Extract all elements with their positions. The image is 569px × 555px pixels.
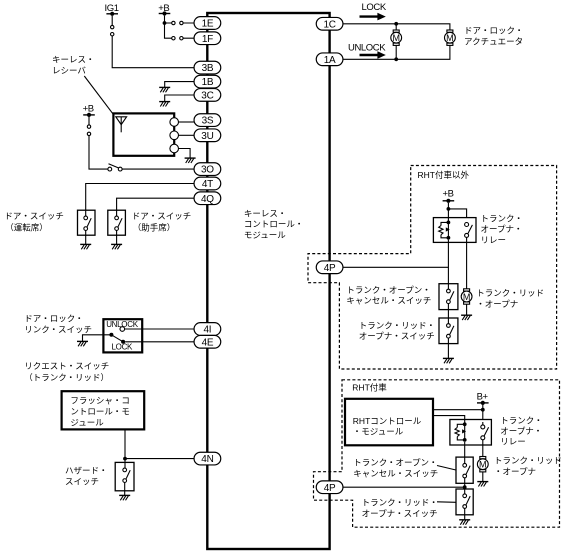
pin 4E — [194, 335, 221, 348]
svg-text:・オープナ: ・オープナ — [476, 299, 518, 309]
ground (receiver) — [185, 158, 196, 163]
svg-text:オープナ・スイッチ: オープナ・スイッチ — [359, 331, 435, 341]
motor M3 (trunk lid opener) — [461, 289, 472, 304]
pin 4N — [194, 452, 221, 465]
svg-text:RHTコントロール: RHTコントロール — [353, 416, 422, 426]
svg-text:ドア・スイッチ: ドア・スイッチ — [4, 211, 64, 221]
svg-text:キーレス・: キーレス・ — [52, 55, 95, 65]
svg-text:4I: 4I — [204, 325, 212, 336]
in-line connector on 1E wire — [172, 21, 175, 24]
contact LOCK — [121, 340, 125, 344]
wire +B to 1E — [165, 16, 195, 23]
svg-text:（運転席）: （運転席） — [5, 222, 48, 232]
power terminal B+ — [477, 401, 489, 405]
wire coil to cancel switch — [447, 240, 449, 289]
wire 1B to ground — [165, 82, 194, 88]
svg-text:ドア・ロック・: ドア・ロック・ — [24, 314, 83, 324]
motor M1 (door lock actuator) — [391, 30, 402, 45]
hazard switch S5 — [115, 462, 134, 490]
wire switch to 3O — [122, 168, 194, 170]
svg-text:3O: 3O — [201, 165, 214, 176]
power terminal +B relay — [443, 199, 455, 203]
svg-text:リンク・スイッチ: リンク・スイッチ — [24, 325, 92, 335]
receiver pin to 3U — [170, 131, 179, 140]
svg-text:4P: 4P — [324, 263, 336, 274]
svg-text:（助手席）: （助手席） — [133, 222, 176, 232]
svg-text:ドア・スイッチ: ドア・スイッチ — [132, 211, 192, 221]
motor M2 (door lock actuator) — [445, 30, 456, 45]
svg-text:1E: 1E — [202, 19, 214, 30]
svg-text:オープナ・: オープナ・ — [500, 426, 542, 436]
svg-text:トランク・リッド・: トランク・リッド・ — [362, 497, 438, 507]
svg-text:・モジュール: ・モジュール — [353, 427, 404, 437]
svg-text:スイッチ: スイッチ — [65, 477, 99, 487]
wire IG1 to connector — [112, 16, 194, 68]
svg-text:+B: +B — [443, 189, 454, 200]
ground (hazard switch) — [119, 495, 130, 500]
relay K2 coil — [463, 422, 467, 426]
pin 3O — [194, 163, 221, 176]
door switch S2 (passenger) — [108, 210, 126, 235]
receiver pin to ground — [170, 144, 179, 153]
svg-text:ジュール: ジュール — [70, 418, 104, 428]
in-line connector on 1F wire — [172, 37, 175, 40]
wire 1C to actuators — [343, 24, 450, 30]
ground (1B) — [159, 87, 170, 92]
wire B+ down to relay — [482, 405, 484, 420]
svg-text:トランク・: トランク・ — [481, 214, 523, 224]
pin 4I — [194, 323, 221, 336]
wire coil K2 to cancel switch — [464, 442, 466, 464]
svg-text:トランク・: トランク・ — [500, 415, 542, 425]
wire 4P to coil line — [343, 266, 448, 268]
wire 3C to ground — [165, 95, 194, 101]
svg-text:コントロール・: コントロール・ — [244, 219, 304, 229]
leader line to receiver — [84, 76, 113, 114]
leader opener switch RHT — [437, 501, 456, 504]
in-line connector on IG1 wire — [111, 25, 114, 28]
power terminal +B — [159, 11, 171, 15]
svg-text:1C: 1C — [324, 19, 336, 30]
svg-text:3C: 3C — [201, 91, 213, 102]
dashed region RHT — [314, 380, 560, 527]
svg-text:リクエスト・スイッチ: リクエスト・スイッチ — [24, 361, 109, 371]
in-line connector on receiver wire — [87, 125, 90, 128]
wire relay K2 switch down — [482, 422, 484, 456]
trunk lid opener switch S7 — [439, 318, 458, 344]
pin 4T — [194, 177, 221, 190]
svg-text:4T: 4T — [202, 179, 213, 190]
wire UNLOCK to 4I — [125, 328, 194, 330]
wire receiver pin to ground — [179, 149, 191, 158]
ground (opener switch RHT) — [459, 520, 470, 525]
junction +B — [163, 21, 167, 25]
svg-text:3S: 3S — [202, 116, 214, 127]
antenna symbol — [116, 117, 127, 125]
keyless control module U1 — [207, 13, 329, 549]
wire flasher to hazard switch — [124, 429, 126, 468]
pin 1F — [194, 32, 221, 45]
svg-text:レシーバ: レシーバ — [52, 65, 86, 75]
junction on 1C wire — [394, 22, 398, 26]
svg-text:オープナ・: オープナ・ — [481, 224, 523, 234]
flasher control module U4 — [62, 391, 145, 429]
svg-text:1A: 1A — [324, 55, 336, 66]
pin 1B — [194, 75, 221, 88]
relay K2 switch — [481, 425, 485, 429]
switch (receiver to 3O) — [108, 167, 112, 171]
trunk lid opener switch S9 — [456, 489, 473, 515]
keyless receiver U2 — [113, 113, 174, 155]
svg-text:（トランク・リッド）: （トランク・リッド） — [24, 372, 109, 382]
svg-text:ントロール・モ: ントロール・モ — [70, 407, 130, 417]
ground (door switch 2) — [111, 244, 122, 249]
relay K2 (trunk opener relay RHT) — [450, 420, 492, 446]
svg-text:4P: 4P — [324, 483, 336, 494]
ground (motor M3) — [461, 315, 472, 320]
wire 4P to junction — [343, 486, 465, 488]
svg-text:4E: 4E — [202, 337, 214, 348]
receiver pin to 3S — [170, 118, 179, 127]
svg-text:リレー: リレー — [481, 235, 507, 245]
leader cancel switch RHT — [437, 466, 456, 471]
pin 1E — [194, 17, 221, 30]
pin 3C — [194, 89, 221, 102]
pin 4P — [316, 261, 343, 274]
svg-text:4N: 4N — [201, 454, 213, 465]
svg-text:・オープナ: ・オープナ — [494, 467, 536, 477]
svg-text:キャンセル・スイッチ: キャンセル・スイッチ — [353, 469, 438, 479]
relay K1 (trunk opener relay) — [433, 218, 476, 243]
wire relay switch to motor — [466, 237, 468, 289]
svg-text:+B: +B — [83, 104, 94, 115]
ground (motor M4) — [477, 482, 488, 487]
arrow LOCK — [360, 13, 386, 21]
svg-text:RHT付車: RHT付車 — [352, 382, 387, 392]
wire module to B+ line — [433, 409, 483, 411]
motor M4 (trunk lid opener RHT) — [477, 457, 488, 472]
svg-text:UNLOCK: UNLOCK — [348, 43, 386, 54]
pin 1C — [316, 17, 343, 30]
svg-text:ドア・ロック・: ドア・ロック・ — [464, 25, 523, 35]
pin 3S — [194, 114, 221, 127]
svg-text:1F: 1F — [202, 34, 213, 45]
junction on 1A wire — [394, 57, 398, 61]
power terminal IG1 — [106, 12, 118, 16]
door lock link switch U3 — [103, 319, 142, 352]
wire 1A to actuators — [343, 45, 450, 59]
lever link switch — [111, 335, 123, 342]
junction 4P RHT — [463, 485, 467, 489]
svg-text:キャンセル・スイッチ: キャンセル・スイッチ — [346, 295, 431, 305]
wire junction to 4N — [125, 458, 194, 460]
pin 4Q — [194, 192, 221, 205]
ground (door switch 1) — [80, 244, 91, 249]
wire receiver to 3S — [179, 121, 195, 123]
svg-text:LOCK: LOCK — [112, 342, 134, 351]
svg-text:B+: B+ — [477, 391, 489, 402]
RHT control module U5 — [345, 399, 433, 446]
svg-text:LOCK: LOCK — [362, 2, 387, 13]
wire receiver to 3U — [179, 134, 195, 136]
relay K1 coil — [447, 221, 451, 225]
trunk open cancel switch S6 — [439, 284, 458, 310]
svg-text:1B: 1B — [202, 77, 214, 88]
svg-text:トランク・リッド: トランク・リッド — [476, 288, 544, 298]
dashed region RHT without — [308, 166, 557, 370]
trunk open cancel switch S8 — [456, 457, 473, 483]
svg-text:ハザード・: ハザード・ — [65, 465, 108, 475]
pin 3B — [194, 61, 221, 74]
junction relay feed — [447, 207, 451, 211]
wire +B to relay — [448, 203, 466, 223]
svg-text:トランク・オープン・: トランク・オープン・ — [346, 285, 430, 295]
svg-text:アクチュエータ: アクチュエータ — [464, 36, 523, 46]
svg-text:3B: 3B — [202, 63, 214, 74]
ground (opener switch) — [443, 358, 454, 363]
svg-text:キーレス・: キーレス・ — [244, 209, 287, 219]
svg-text:4Q: 4Q — [201, 194, 214, 205]
ground (3C) — [159, 102, 170, 107]
svg-text:リレー: リレー — [500, 437, 526, 447]
wire common to ground — [83, 335, 112, 341]
relay K1 switch — [465, 223, 469, 227]
pin 1A — [316, 53, 343, 66]
arrow UNLOCK — [360, 51, 386, 59]
wire +B to 1F — [165, 23, 195, 38]
power terminal +B receiver — [83, 113, 95, 117]
svg-text:トランク・リッド・: トランク・リッド・ — [359, 321, 435, 331]
wire 4T to door switch 1 — [86, 184, 194, 217]
wire +B receiver down — [89, 117, 108, 169]
junction 4N — [123, 457, 127, 461]
contact UNLOCK — [120, 327, 125, 332]
pin 4P (RHT) — [316, 481, 343, 494]
svg-text:RHT付車以外: RHT付車以外 — [418, 170, 470, 180]
svg-text:フラッシャ・コ: フラッシャ・コ — [70, 396, 130, 406]
pin 3U — [194, 129, 221, 142]
ground (link switch) — [77, 341, 88, 346]
svg-text:3U: 3U — [201, 131, 213, 142]
junction B+ — [481, 408, 485, 412]
svg-text:モジュール: モジュール — [244, 230, 286, 240]
wire motor1 stubs — [395, 24, 397, 60]
wire 4Q to door switch 2 — [117, 198, 194, 216]
common pole — [109, 333, 113, 337]
svg-text:オープナ・スイッチ: オープナ・スイッチ — [362, 508, 438, 518]
svg-text:トランク・オープン・: トランク・オープン・ — [353, 457, 437, 467]
door switch S1 (driver) — [78, 210, 96, 235]
wire LOCK to 4E — [125, 341, 194, 343]
wire module to coil — [433, 416, 465, 425]
svg-text:トランク・リッド: トランク・リッド — [494, 455, 562, 465]
